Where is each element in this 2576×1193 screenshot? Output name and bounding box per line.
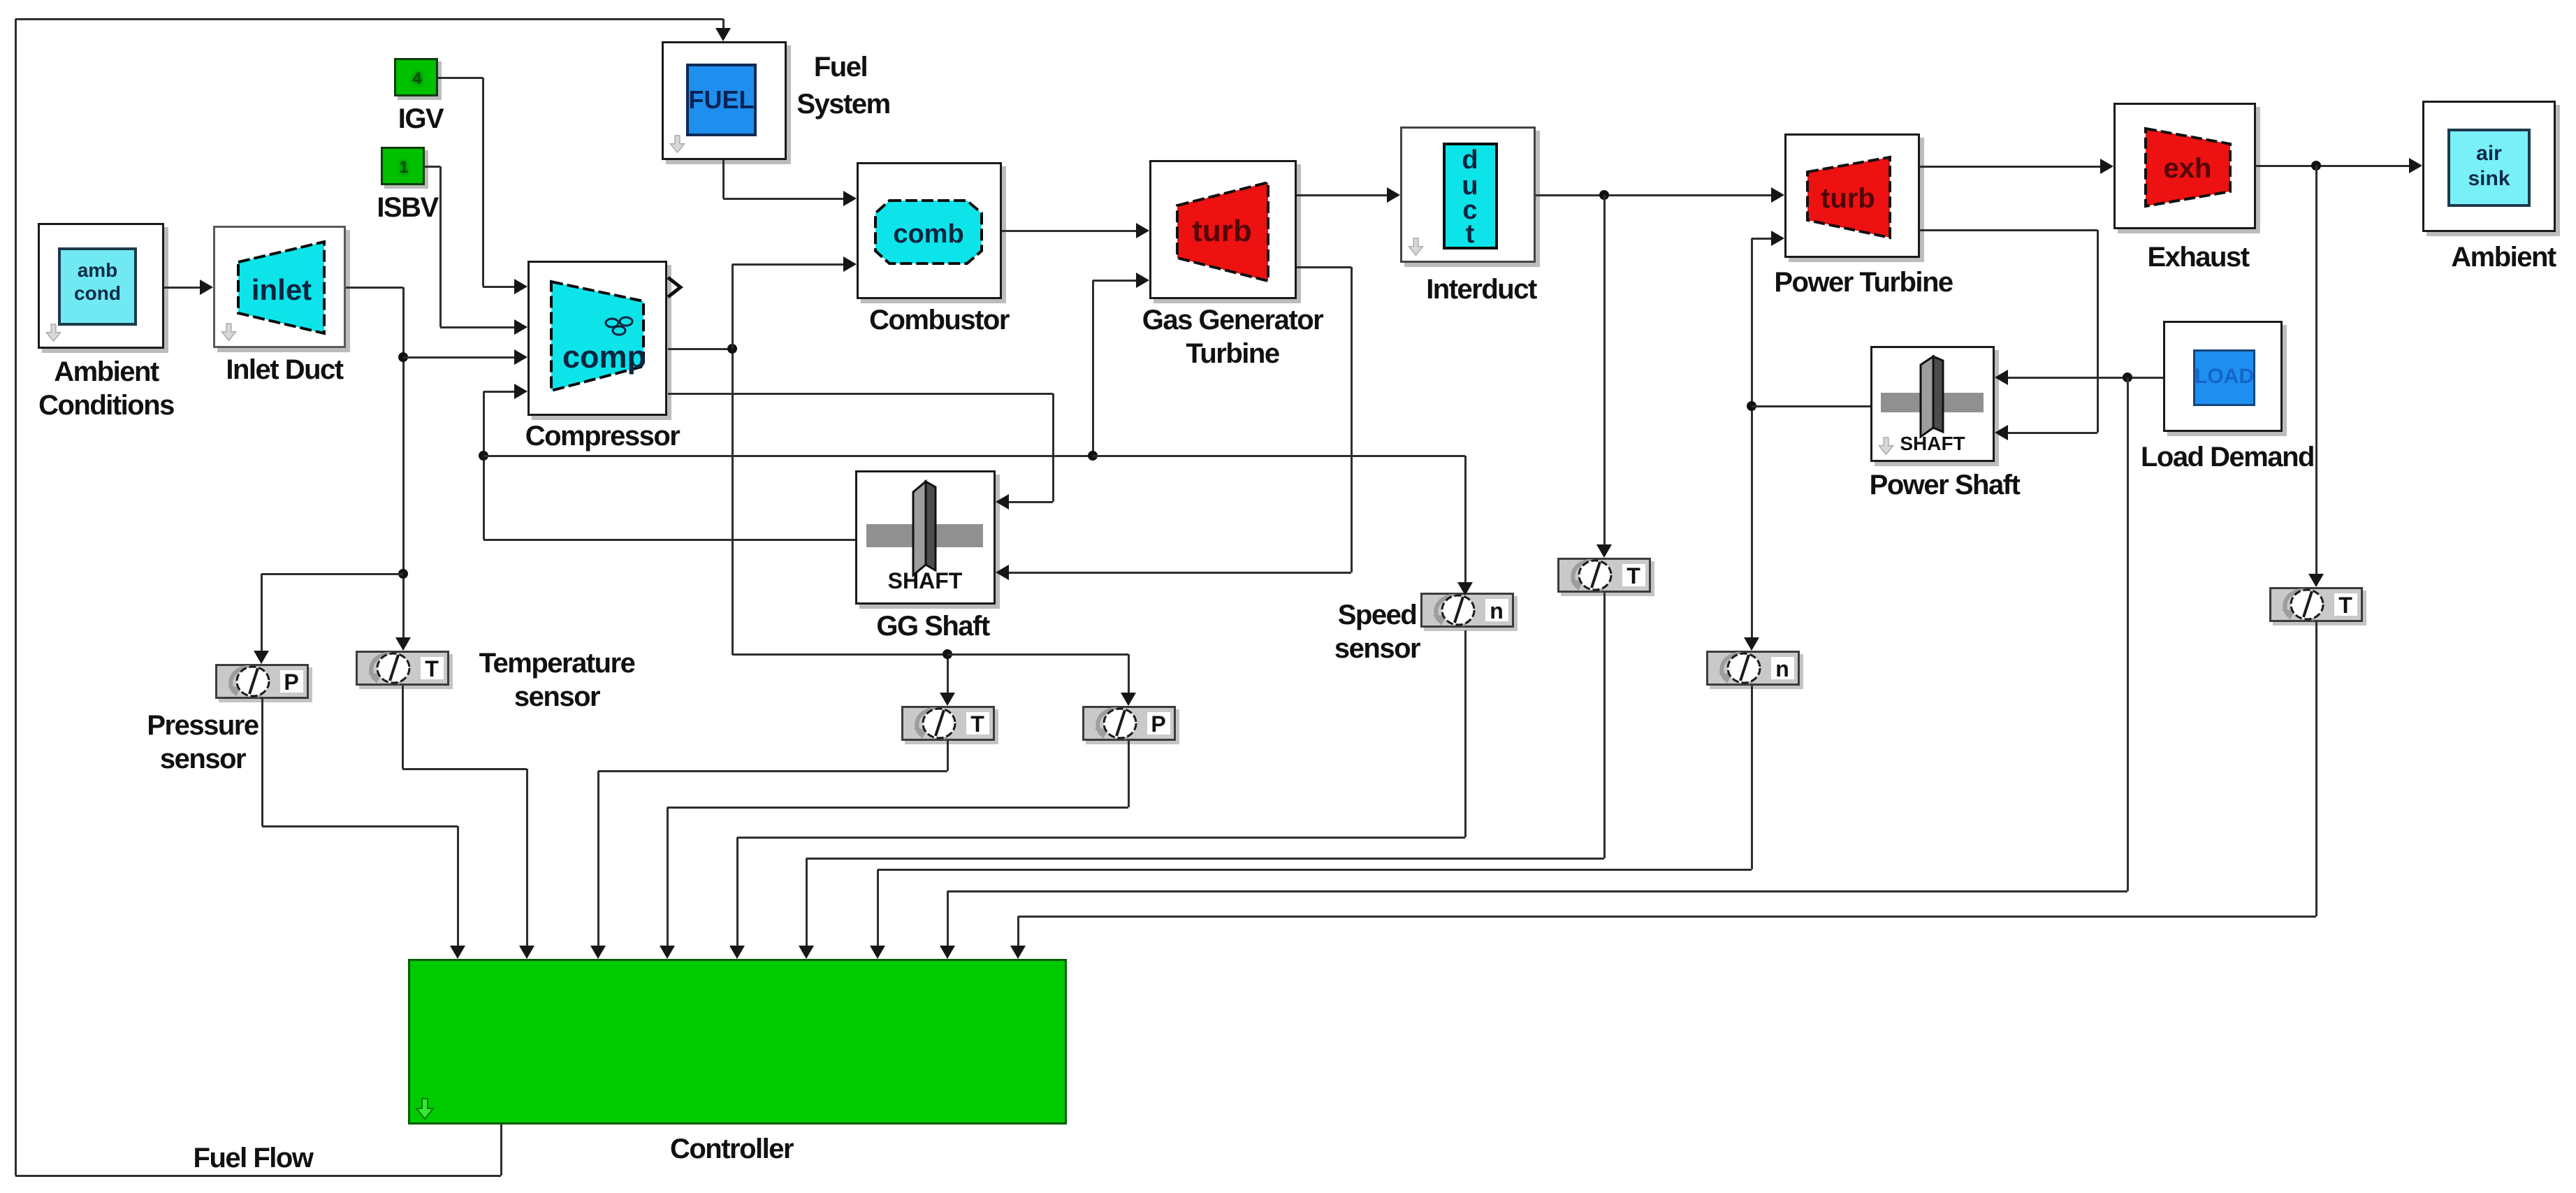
block Fuel System [662, 41, 787, 160]
label Ambient sink [2294, 240, 2576, 274]
block Inlet Duct [213, 226, 346, 348]
block Power Shaft [1870, 346, 1995, 462]
svg-text:n: n [1775, 656, 1789, 681]
sensor P mid (GG exit) [1082, 706, 1176, 741]
block Ambient Conditions [38, 223, 164, 349]
wire PowerShaft speed trunk to n sensor [1751, 238, 1753, 639]
block Gas Generator Turbine [1149, 160, 1297, 299]
sensor T exhaust [2269, 587, 2363, 622]
block Exhaust [2113, 103, 2256, 229]
block Load Demand [2163, 321, 2283, 432]
wire FuelSystem to Combustor in1 [722, 160, 725, 198]
wire branch to Pressure sensor [261, 573, 403, 575]
sensor P main (pressure sensor) [215, 664, 309, 699]
wire GGT out2 to GGShaft in2 [1297, 266, 1351, 268]
sensor T main (temperature sensor) [356, 651, 449, 686]
svg-text:comp: comp [562, 339, 646, 375]
wire Compressor out1 trunk [668, 348, 732, 350]
label Power Turbine [1654, 266, 2073, 299]
label Interduct [1272, 273, 1691, 306]
label Fuel System line2 [634, 87, 1053, 121]
wire GG exit to P sensor [947, 653, 1128, 656]
wire PowerTurbine out2 to PowerShaft in2 [1920, 229, 2097, 231]
sensor n power turbine [1706, 651, 1800, 686]
svg-text:t: t [1466, 219, 1475, 249]
svg-text:comb: comb [893, 219, 963, 249]
wire speed sensor to Controller in5 [1464, 630, 1467, 837]
wire Compressor out2 to GGShaft in1 [668, 393, 1053, 395]
svg-text:turb: turb [1821, 183, 1875, 214]
wire T mid sensor to Controller in3 [947, 741, 949, 771]
label Speed sensor [1167, 598, 1587, 665]
wire P sensor to Controller in1 [261, 697, 263, 826]
wire LoadDemand to PowerShaft in1 [2006, 377, 2163, 379]
block Controller [408, 959, 1067, 1125]
label Gas Generator Turbine [1023, 303, 1442, 370]
svg-text:P: P [284, 670, 298, 695]
wire Load demand to Controller in8 [2127, 377, 2129, 891]
label Controller [522, 1132, 941, 1166]
wire exhaust T sensor to Controller in9 [2315, 622, 2317, 916]
wire IGV to Compressor in1 [438, 77, 483, 79]
svg-text:d: d [1462, 145, 1478, 175]
label IGV [211, 102, 630, 136]
label Pressure sensor [0, 709, 412, 776]
sensor T interduct [1557, 558, 1651, 593]
compressor output port chevron [665, 275, 683, 299]
wire Combustor to GGT in1 [1002, 230, 1138, 232]
wire ISBV to Compressor in2 [425, 166, 440, 168]
label Exhaust [1988, 240, 2408, 274]
sensor n speed (GG) [1420, 593, 1514, 628]
wire InletDuct output trunk [346, 287, 403, 289]
wire PT n sensor to Controller in7 [1751, 686, 1753, 869]
wire branch to exhaust T sensor [2315, 166, 2317, 576]
wire PowerTurbine out1 to Exhaust [1920, 166, 2102, 168]
svg-text:SHAFT: SHAFT [888, 568, 963, 593]
label Compressor [393, 419, 812, 453]
wire branch to Compressor in3 [403, 356, 516, 359]
wire P mid sensor to Controller in4 [1128, 741, 1130, 807]
label Combustor [729, 303, 1149, 337]
wire fuel-flow feedback left+top border [500, 1125, 502, 1176]
svg-text:T: T [1627, 563, 1640, 588]
label Load Demand [2018, 440, 2437, 474]
wire speed line to speed sensor [1093, 455, 1465, 457]
label Power Shaft [1735, 468, 2154, 502]
wire GGShaft speed to Compressor in4 [483, 539, 855, 541]
label Ambient Conditions [0, 355, 316, 422]
wire T sensor to Controller in2 [402, 686, 404, 769]
label Fuel System line1 [631, 50, 1050, 84]
block ISBV constant [381, 147, 425, 185]
block Power Turbine [1784, 133, 1920, 258]
wire branch to interduct T sensor [1603, 195, 1606, 547]
svg-text:SHAFT: SHAFT [1900, 433, 1965, 454]
block GG Shaft [855, 470, 996, 605]
label Inlet Duct [75, 353, 494, 386]
svg-text:turb: turb [1192, 214, 1252, 248]
svg-text:exh: exh [2164, 153, 2212, 184]
wire GGT out1 to Interduct [1297, 194, 1389, 196]
block Combustor [857, 162, 1002, 299]
wire GG exit to T sensor [732, 653, 947, 656]
wire AmbientConditions to InletDuct [164, 287, 202, 289]
svg-text:T: T [2338, 593, 2352, 618]
block Interduct [1400, 126, 1536, 263]
wire speed to PowerTurbine in2 [1752, 238, 1773, 240]
svg-text:P: P [1151, 711, 1165, 737]
wire PowerShaft left port [1752, 405, 1870, 407]
svg-text:T: T [970, 711, 984, 737]
block Ambient air sink [2422, 101, 2556, 232]
block IGV constant [394, 58, 438, 96]
label Fuel Flow [43, 1141, 463, 1175]
wire speed line to GGT in2 [483, 455, 1093, 457]
wire Exhaust to Ambient sink [2256, 165, 2411, 167]
wire interduct T sensor to Controller in6 [1603, 593, 1606, 858]
label Temperature sensor [347, 646, 766, 714]
block Compressor [527, 261, 667, 416]
sensor T mid (GG exit) [901, 706, 995, 741]
label GG Shaft [723, 609, 1142, 643]
wire branch to Combustor in2 [732, 264, 734, 349]
wire Interduct to PowerTurbine in1 [1536, 194, 1773, 196]
label ISBV [198, 191, 617, 224]
